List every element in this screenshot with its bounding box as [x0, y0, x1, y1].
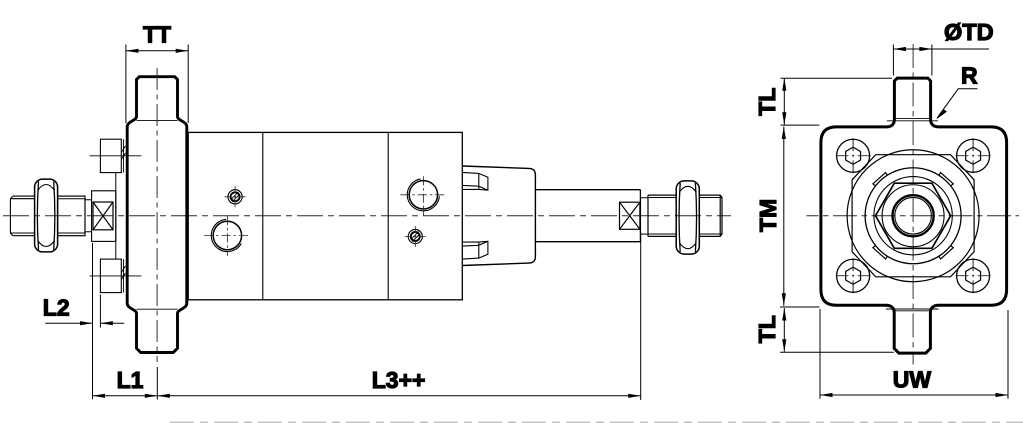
svg-text:L3++: L3++: [372, 367, 426, 393]
head lug top: [463, 172, 488, 190]
retainer tab SW: [873, 246, 887, 259]
gland retainer circle with tabs: [865, 168, 961, 264]
cylinder head cap: [462, 166, 535, 266]
body weld seam lines: [263, 132, 388, 299]
svg-text:L2: L2: [43, 295, 70, 321]
screw center line bottom: [90, 275, 142, 277]
mounting screw boss top: [100, 139, 125, 172]
end view horizontal center line: [807, 215, 1020, 217]
head lug bottom: [463, 241, 488, 259]
rod lock nut N2: [676, 181, 699, 254]
nut chamfer circle: [882, 185, 944, 247]
rod gland block: [92, 191, 116, 242]
seal X symbol rod end: [620, 202, 640, 229]
main axis center line (side view): [3, 215, 731, 217]
left lock nut N1: [35, 179, 58, 252]
bolt hole top-right: [956, 138, 991, 173]
svg-text:R: R: [961, 63, 978, 89]
svg-text:TM: TM: [755, 199, 781, 232]
boss tangent lines end view: [886, 119, 939, 311]
step to gland: [85, 200, 92, 232]
flange plate with trunnion bosses (thick outline): [127, 77, 187, 353]
svg-text:UW: UW: [893, 367, 932, 393]
svg-text:TL: TL: [754, 88, 780, 116]
piston rod: [535, 190, 640, 242]
port left: [204, 216, 251, 256]
dimension TL top: [781, 78, 892, 125]
thread circle of gland bore: [874, 177, 952, 255]
tube circle behind flange: [847, 150, 979, 282]
cylinder body: [188, 132, 462, 299]
seal X symbol left: [93, 202, 113, 230]
bleed screw left: [225, 186, 246, 207]
threaded sleeve bush: [58, 196, 85, 236]
retainer tab NE: [939, 173, 953, 186]
flange/boss center line: [156, 68, 158, 362]
svg-text:TL: TL: [754, 315, 780, 343]
dimension OTD: [893, 45, 989, 76]
dimension L2: [45, 243, 124, 399]
dimension TL bottom: [780, 307, 894, 352]
left rod threaded end: [10, 196, 35, 236]
boss tangent lines: [137, 121, 178, 310]
dimension L3++: [157, 233, 640, 400]
flange square with bosses (thick outline): [821, 78, 1007, 353]
screw center line top: [90, 155, 142, 157]
dimension TM: [782, 127, 786, 306]
dimension L1: [93, 367, 641, 400]
bolt hole top-left: [836, 138, 871, 173]
retainer tab SE: [939, 246, 953, 259]
octagonal head silhouette: [852, 155, 974, 277]
end view vertical center line: [912, 44, 914, 365]
bolt hole bottom-right: [956, 258, 991, 293]
gland hex nut: [876, 183, 951, 248]
faint bottom dashed line: [170, 421, 1023, 423]
bolt hole bottom-left: [836, 258, 871, 293]
head plate edge behind flange: [115, 173, 117, 260]
port right: [400, 176, 447, 215]
svg-text:TT: TT: [143, 22, 171, 48]
retainer tab NW: [873, 173, 887, 186]
dimension TT: [126, 45, 188, 124]
rod thread section: [648, 195, 722, 236]
dimension UW: [820, 309, 1008, 399]
mounting screw boss bottom: [100, 259, 125, 293]
rod end circle bold: [893, 195, 934, 236]
rod thread circle: [895, 197, 932, 234]
radius leader R: [936, 89, 977, 120]
bleed screw right: [405, 226, 426, 247]
svg-text:ØTD: ØTD: [944, 19, 994, 45]
svg-text:L1: L1: [117, 367, 144, 393]
rod end step: [640, 198, 648, 234]
